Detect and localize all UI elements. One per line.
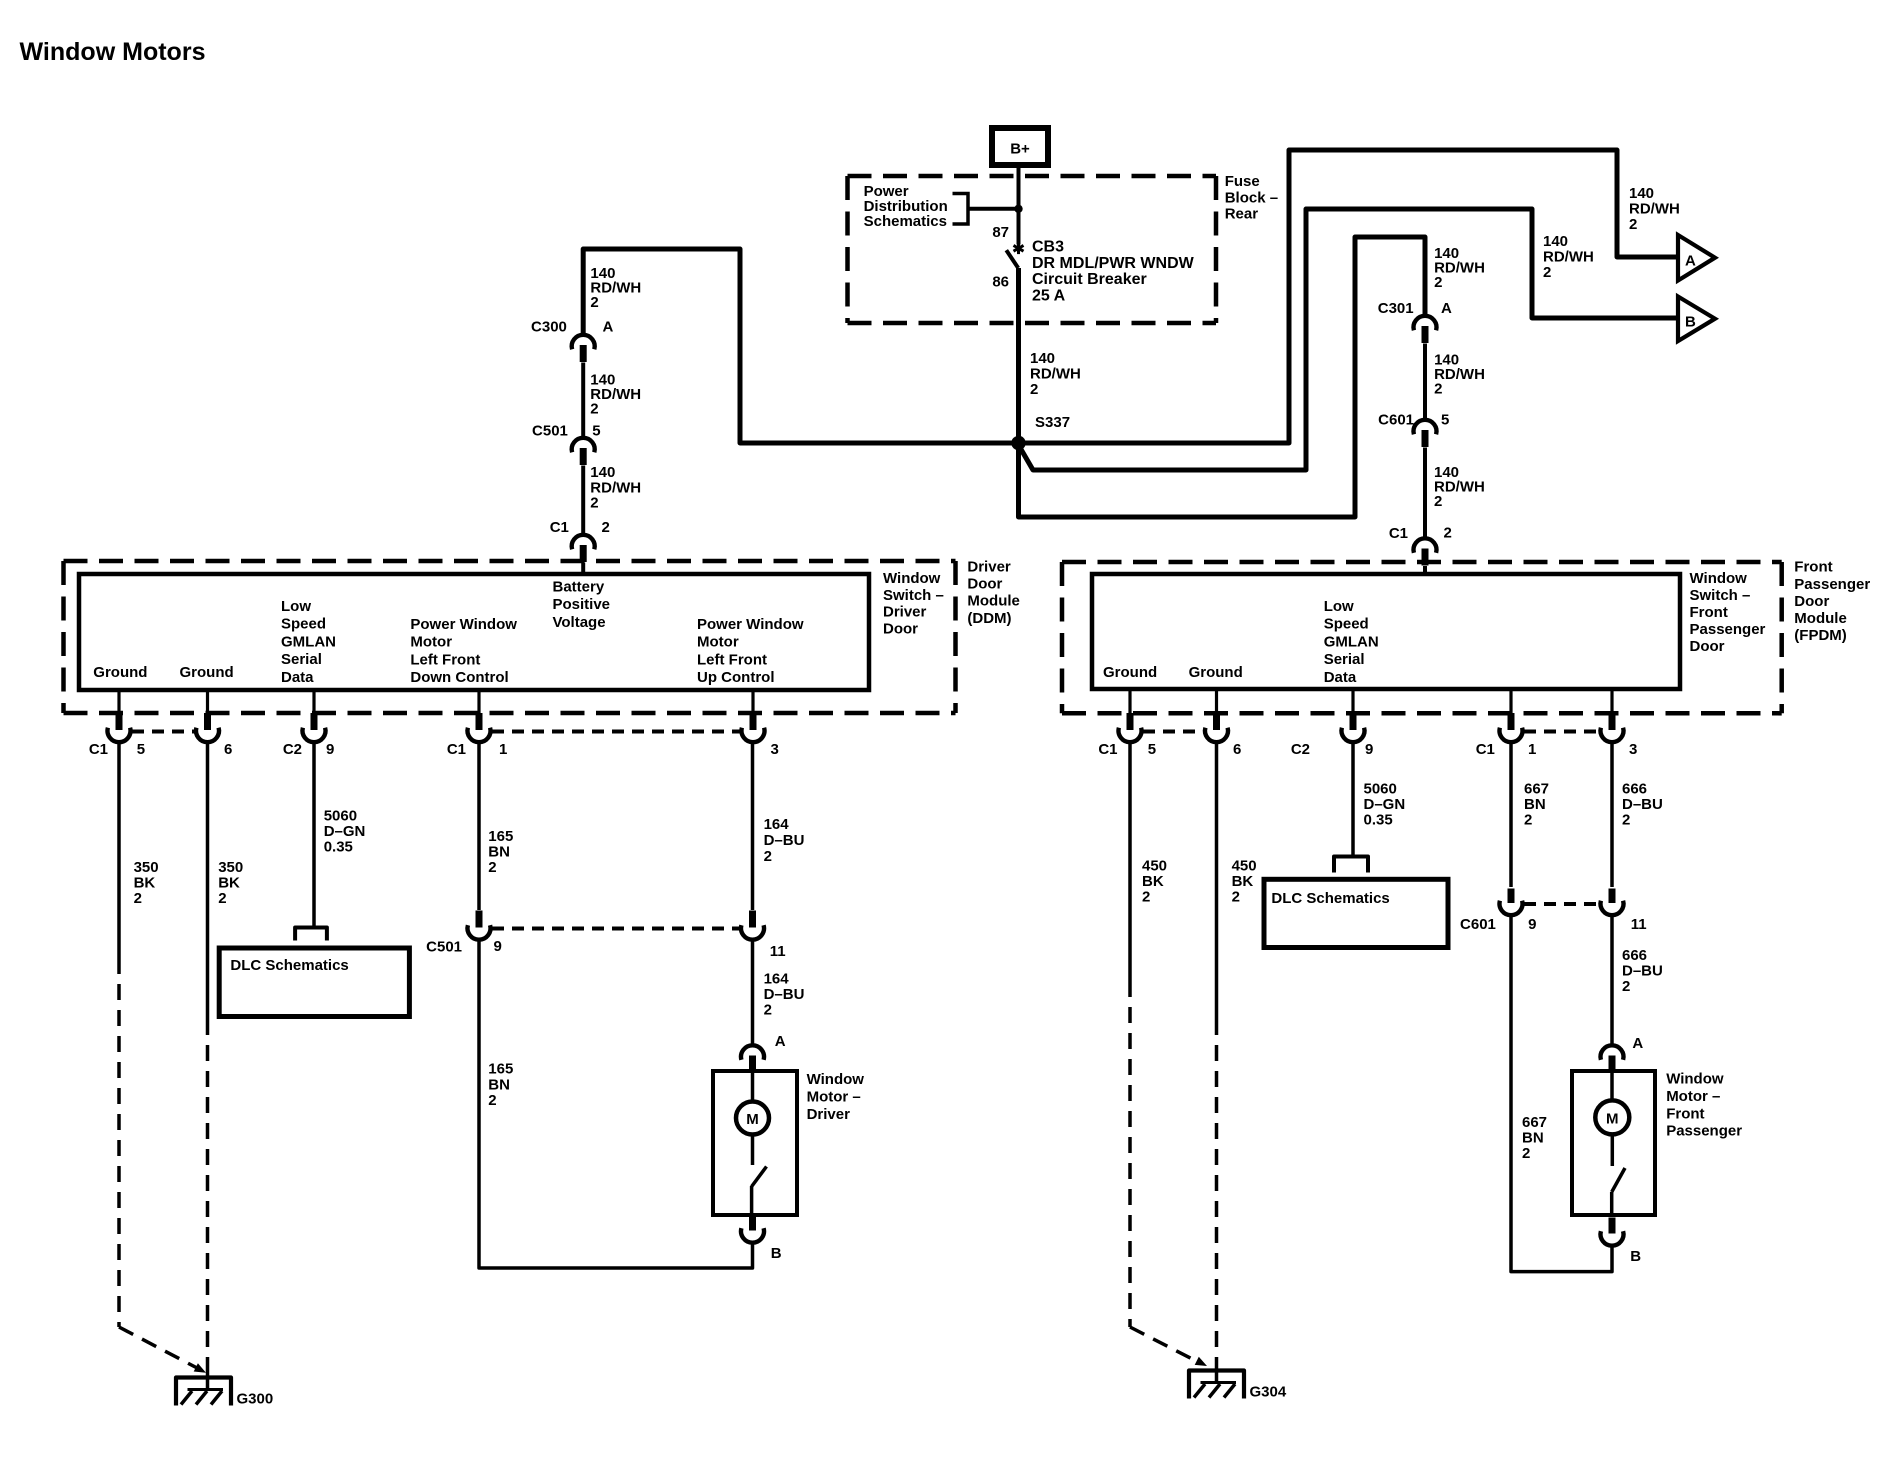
svg-text:Data: Data [281,669,314,686]
svg-text:87: 87 [992,224,1009,241]
svg-text:2: 2 [1434,381,1442,398]
svg-text:2: 2 [1434,274,1442,291]
svg-text:1: 1 [499,741,507,758]
svg-text:BK: BK [1142,873,1164,890]
svg-text:C1: C1 [1476,741,1495,758]
svg-text:D–BU: D–BU [764,986,805,1003]
svg-text:C300: C300 [531,319,567,336]
svg-text:Module: Module [967,593,1020,610]
svg-text:1: 1 [1528,741,1536,758]
svg-text:Driver: Driver [883,604,927,621]
svg-text:C1: C1 [1098,741,1117,758]
svg-text:666: 666 [1622,947,1647,964]
svg-text:Down Control: Down Control [410,669,508,686]
svg-text:C2: C2 [283,741,302,758]
svg-text:Door: Door [1690,638,1725,655]
svg-text:Module: Module [1794,610,1847,627]
svg-text:140: 140 [1629,185,1654,202]
svg-text:C1: C1 [447,741,466,758]
svg-text:164: 164 [764,816,790,833]
svg-text:C1: C1 [89,741,108,758]
svg-text:Driver: Driver [967,559,1011,576]
svg-text:GMLAN: GMLAN [1324,633,1379,650]
svg-text:DLC Schematics: DLC Schematics [1271,890,1389,907]
svg-text:3: 3 [1629,741,1637,758]
svg-text:2: 2 [1232,889,1240,906]
svg-text:BN: BN [1524,796,1546,813]
svg-text:G304: G304 [1250,1384,1287,1401]
svg-text:Motor –: Motor – [1666,1088,1720,1105]
svg-text:G300: G300 [237,1391,274,1408]
svg-text:140: 140 [1543,233,1568,250]
svg-text:2: 2 [1444,525,1452,542]
svg-text:Door: Door [967,576,1002,593]
svg-text:9: 9 [1528,916,1536,933]
svg-text:2: 2 [218,890,226,907]
svg-text:Power Window: Power Window [410,616,517,633]
svg-text:BN: BN [488,1076,510,1093]
svg-text:450: 450 [1142,857,1167,874]
svg-text:350: 350 [218,859,243,876]
svg-text:Positive: Positive [553,596,611,613]
svg-text:3: 3 [771,741,779,758]
svg-text:2: 2 [488,1092,496,1109]
svg-text:2: 2 [1030,381,1038,398]
svg-text:Motor: Motor [697,634,739,651]
svg-text:2: 2 [1622,978,1630,995]
svg-text:Left Front: Left Front [697,651,767,668]
svg-text:2: 2 [1434,493,1442,510]
svg-text:2: 2 [764,848,772,865]
svg-text:2: 2 [1142,889,1150,906]
svg-text:D–BU: D–BU [764,832,805,849]
svg-text:Window: Window [1666,1071,1724,1088]
svg-text:Front: Front [1794,559,1832,576]
svg-text:11: 11 [1631,916,1647,933]
svg-text:C1: C1 [550,519,569,536]
svg-text:9: 9 [326,741,334,758]
svg-text:2: 2 [602,519,610,536]
svg-text:5: 5 [137,741,145,758]
svg-text:C601: C601 [1378,412,1414,429]
svg-text:Motor –: Motor – [807,1088,861,1105]
svg-text:Window Motors: Window Motors [20,38,206,66]
svg-text:C2: C2 [1291,741,1310,758]
svg-text:D–GN: D–GN [1364,796,1406,813]
svg-text:Schematics: Schematics [864,213,947,230]
svg-text:2: 2 [1622,812,1630,829]
svg-text:Rear: Rear [1225,206,1259,223]
svg-text:C601: C601 [1460,916,1496,933]
svg-text:BK: BK [1232,873,1254,890]
svg-text:Power Window: Power Window [697,616,804,633]
svg-text:86: 86 [992,274,1009,291]
svg-text:2: 2 [1524,812,1532,829]
svg-text:M: M [746,1111,759,1128]
svg-text:GMLAN: GMLAN [281,633,336,650]
svg-text:D–BU: D–BU [1622,796,1663,813]
svg-text:M: M [1606,1110,1619,1127]
svg-text:165: 165 [488,828,513,845]
svg-text:Ground: Ground [1189,664,1243,681]
svg-text:Door: Door [883,620,918,637]
svg-text:Voltage: Voltage [553,614,606,631]
svg-text:Door: Door [1794,593,1829,610]
svg-text:DLC Schematics: DLC Schematics [230,957,348,974]
svg-text:165: 165 [488,1061,513,1078]
svg-text:9: 9 [1365,741,1373,758]
svg-text:Passenger: Passenger [1666,1123,1742,1140]
svg-text:A: A [1685,253,1696,270]
svg-text:Fuse: Fuse [1225,173,1260,190]
svg-text:Switch –: Switch – [1690,587,1751,604]
svg-text:6: 6 [224,741,232,758]
svg-text:Ground: Ground [93,664,147,681]
svg-text:6: 6 [1233,741,1241,758]
svg-text:Passenger: Passenger [1690,621,1766,638]
svg-text:Battery: Battery [553,579,605,596]
svg-text:C501: C501 [532,423,568,440]
svg-text:Data: Data [1324,669,1357,686]
svg-text:RD/WH: RD/WH [1543,249,1594,266]
svg-text:Switch –: Switch – [883,587,944,604]
svg-text:Window: Window [883,570,941,587]
svg-text:Driver: Driver [807,1106,851,1123]
svg-text:Up Control: Up Control [697,669,774,686]
svg-text:(FPDM): (FPDM) [1794,627,1847,644]
svg-text:2: 2 [1543,264,1551,281]
svg-text:S337: S337 [1035,414,1070,431]
svg-text:Passenger: Passenger [1794,576,1870,593]
svg-text:(DDM): (DDM) [967,610,1011,627]
svg-text:Ground: Ground [1103,664,1157,681]
svg-text:Circuit Breaker: Circuit Breaker [1032,271,1147,288]
svg-text:2: 2 [590,401,598,418]
svg-text:5: 5 [592,423,600,440]
svg-text:2: 2 [590,294,598,311]
svg-text:5060: 5060 [1364,780,1397,797]
svg-text:Speed: Speed [281,616,326,633]
svg-text:A: A [603,319,614,336]
svg-text:164: 164 [764,971,790,988]
svg-text:A: A [1441,300,1452,317]
svg-text:Ground: Ground [180,664,234,681]
svg-text:140: 140 [1030,350,1055,367]
svg-text:Window: Window [807,1071,865,1088]
svg-text:Serial: Serial [281,651,322,668]
svg-text:2: 2 [1522,1145,1530,1162]
svg-text:Serial: Serial [1324,651,1365,668]
svg-text:B: B [771,1245,782,1262]
svg-text:666: 666 [1622,780,1647,797]
svg-text:Low: Low [281,598,311,615]
svg-text:450: 450 [1232,857,1257,874]
svg-text:Block –: Block – [1225,189,1278,206]
svg-text:2: 2 [488,859,496,876]
svg-text:5: 5 [1148,741,1156,758]
svg-text:2: 2 [590,495,598,512]
svg-text:Motor: Motor [410,634,452,651]
svg-text:Low: Low [1324,598,1354,615]
svg-text:B: B [1630,1248,1641,1265]
svg-text:0.35: 0.35 [324,838,353,855]
svg-text:Window: Window [1690,570,1748,587]
svg-text:C501: C501 [426,939,462,956]
svg-text:9: 9 [494,938,502,955]
svg-text:D–BU: D–BU [1622,963,1663,980]
svg-text:DR MDL/PWR WNDW: DR MDL/PWR WNDW [1032,255,1195,272]
svg-text:BK: BK [134,875,156,892]
svg-text:CB3: CB3 [1032,239,1064,256]
svg-text:11: 11 [770,943,786,960]
svg-text:350: 350 [134,859,159,876]
svg-text:Speed: Speed [1324,616,1369,633]
svg-text:25 A: 25 A [1032,287,1066,304]
svg-text:RD/WH: RD/WH [1030,366,1081,383]
svg-text:BN: BN [1522,1129,1544,1146]
svg-text:Left Front: Left Front [410,651,480,668]
svg-text:2: 2 [134,890,142,907]
svg-text:5: 5 [1441,412,1449,429]
svg-text:667: 667 [1524,780,1549,797]
svg-text:C1: C1 [1389,525,1408,542]
svg-text:2: 2 [1629,216,1637,233]
svg-text:Front: Front [1666,1105,1704,1122]
svg-text:B: B [1685,314,1696,331]
svg-text:RD/WH: RD/WH [1629,201,1680,218]
svg-text:667: 667 [1522,1114,1547,1131]
svg-text:B+: B+ [1010,141,1030,158]
svg-text:A: A [1632,1035,1643,1052]
svg-text:BK: BK [218,875,240,892]
svg-text:0.35: 0.35 [1364,812,1393,829]
svg-text:A: A [775,1033,786,1050]
svg-text:BN: BN [488,844,510,861]
svg-text:2: 2 [764,1002,772,1019]
svg-text:Front: Front [1690,604,1728,621]
svg-text:C301: C301 [1378,300,1414,317]
